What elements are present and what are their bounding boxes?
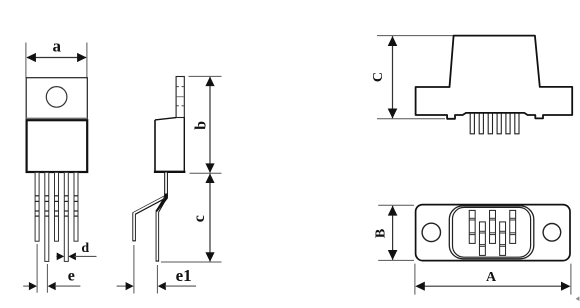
svg-text:C: C: [371, 72, 386, 82]
pin slot 5 (bottom view): [510, 210, 516, 243]
module body profile: [416, 36, 573, 119]
pin slot 1 (bottom view): [469, 210, 475, 243]
lead 4 (front view): [64, 172, 68, 261]
svg-text:b: b: [192, 121, 209, 130]
mounting hole: [46, 87, 67, 108]
dimension A extension line right: [570, 264, 572, 295]
pin slot 4 (bottom view): [500, 222, 506, 256]
lead 1 (front view): [35, 172, 39, 241]
lead 1 extension line: [36, 244, 38, 293]
module outline (bottom view): [416, 205, 570, 261]
dimension a line with arrows: [26, 53, 86, 62]
lead 5 (front view): [74, 172, 78, 241]
svg-text:B: B: [374, 229, 389, 238]
dimension B line with arrows: [388, 206, 398, 260]
dimension e line with arrows: [23, 282, 80, 290]
tab hole hidden lines: [176, 87, 184, 106]
svg-text:d: d: [81, 241, 89, 256]
dimension d arrows at lead 4: [56, 253, 96, 261]
package body (side view): [154, 118, 186, 172]
dimension b line with arrows: [205, 77, 214, 173]
dimension c line with arrows: [205, 174, 214, 262]
lead 2 extension line: [46, 264, 48, 293]
dimension C extension line top: [377, 35, 453, 37]
bent lead front row (side view): [134, 173, 166, 242]
back lead tip extension line: [156, 265, 158, 294]
right mounting hole: [543, 224, 561, 242]
svg-text:c: c: [191, 215, 208, 222]
dimension B extension line bottom: [378, 259, 414, 261]
dimension B extension line top: [378, 204, 414, 206]
pin recess inner outline: [453, 207, 531, 257]
stray mark bottom right: [576, 296, 580, 301]
pin recess outer outline: [449, 206, 534, 259]
dimension A line with arrows: [415, 282, 570, 291]
package body (front view): [27, 120, 88, 172]
lead bend junction: [156, 194, 168, 213]
front lead tip extension line: [133, 245, 135, 294]
left mounting hole: [422, 223, 440, 241]
svg-text:e: e: [68, 268, 75, 285]
dimension b extension line top: [189, 75, 222, 77]
dimension C extension line bottom: [377, 118, 445, 120]
lead 3 (front view): [55, 172, 59, 241]
dimension a extension lines: [26, 43, 87, 78]
dimension e1 line with arrows: [117, 282, 197, 290]
pin slot 2 (bottom view): [479, 222, 485, 256]
dimension b/c shared extension line: [190, 172, 222, 174]
svg-text:A: A: [486, 270, 497, 285]
lead 2 (front view): [45, 172, 49, 261]
dimension C line with arrows: [388, 36, 398, 119]
dimension A extension line left: [414, 264, 416, 295]
pin slot 3 (bottom view): [490, 210, 496, 243]
svg-text:a: a: [53, 36, 62, 55]
bent lead back row (side view): [157, 173, 166, 262]
dimension c extension line bottom: [161, 261, 222, 263]
module pins (side view): [470, 113, 519, 134]
mounting tab (front view): [26, 78, 87, 119]
mounting tab (side view): [176, 77, 184, 118]
svg-text:e1: e1: [176, 266, 192, 285]
